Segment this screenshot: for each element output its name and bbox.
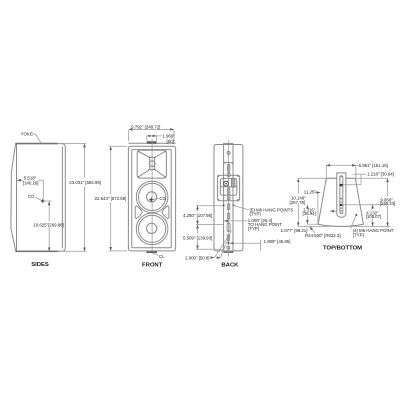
svg-text:SIDES: SIDES <box>31 262 49 268</box>
slot 3 <box>228 204 230 210</box>
dimension 1.077 tick <box>305 232 307 234</box>
cabinet top view outline <box>318 178 363 226</box>
plate screw BR <box>237 199 238 200</box>
svg-text:CG: CG <box>28 194 35 199</box>
dimension 1.969 leader <box>157 135 163 137</box>
dimension 4.250 line <box>197 206 199 211</box>
dimension 9.792 ext right <box>173 130 175 141</box>
strip cross line <box>224 161 233 163</box>
horn diagonal top-left <box>139 152 150 158</box>
svg-text:5.509" [139.93]: 5.509" [139.93] <box>183 236 212 241</box>
hang strip bottom edge <box>224 251 234 253</box>
hang strip left edge <box>223 143 225 252</box>
CG leader <box>35 197 42 200</box>
svg-text:9.792" [248.72]: 9.792" [248.72] <box>131 125 160 130</box>
centerline back <box>228 140 230 256</box>
dimension 22.543 line <box>110 147 112 195</box>
woofer 1 outer <box>136 181 168 213</box>
hole small <box>227 235 230 238</box>
point marker back <box>228 242 230 244</box>
dimension 2.000 arrow 2 <box>218 257 220 259</box>
extension line bottom to 23.031 dim <box>58 250 87 252</box>
svg-text:10.625"[269.88]: 10.625"[269.88] <box>33 223 63 228</box>
hang line to 4.132 <box>343 204 388 206</box>
svg-text:CG: CG <box>159 196 166 201</box>
woofer 1 cone <box>139 183 166 210</box>
dimension 22.543 ext bottom <box>109 250 127 252</box>
right port <box>162 206 169 219</box>
dimension 10.625 line <box>48 202 50 222</box>
svg-text:[257.78]: [257.78] <box>290 200 306 205</box>
slot 6 small <box>227 238 229 241</box>
dimension 1.809 line <box>230 242 261 244</box>
woofer 2 outer <box>136 213 168 245</box>
dimension 4.250 ref mid <box>196 224 224 226</box>
left port <box>135 206 142 219</box>
cabinet side outline <box>11 144 16 252</box>
junction dot right <box>233 204 235 206</box>
yoke top strap line <box>128 142 175 144</box>
svg-text:BACK: BACK <box>221 262 239 268</box>
hang strip top edge <box>224 142 234 144</box>
cabinet front baffle line <box>16 144 18 251</box>
yoke track outer <box>337 173 346 217</box>
speakON connector <box>224 181 229 186</box>
slot 1 <box>228 164 230 171</box>
svg-text:1.969": 1.969" <box>162 133 175 138</box>
svg-text:CL: CL <box>159 254 165 259</box>
hang point leader top view <box>351 216 357 229</box>
svg-text:FRONT: FRONT <box>142 262 163 268</box>
slot 4 <box>228 213 230 219</box>
slot ticks <box>224 163 232 165</box>
cabinet bottom edge <box>16 250 58 252</box>
back edge right <box>346 177 355 179</box>
dimension 4.132 line <box>372 205 374 209</box>
dimension 5.951 leader <box>356 164 358 166</box>
dimension 5.509 line <box>197 225 199 234</box>
svg-text:23.031" [584.99]: 23.031" [584.99] <box>69 180 101 185</box>
woofer 2 cone <box>139 215 166 242</box>
horn outer <box>137 150 166 178</box>
cabinet back edge <box>57 144 65 252</box>
dimension 5.518 line <box>17 179 23 181</box>
yoke strip on back <box>61 147 63 249</box>
horn throat stubs <box>148 157 156 169</box>
svg-text:[140.16]: [140.16] <box>23 180 39 185</box>
horn diagonal top-right <box>155 152 166 158</box>
angle reference vertical <box>317 194 319 225</box>
plate divider <box>220 186 236 188</box>
yoke track slot <box>340 176 343 214</box>
plate screw TR <box>237 175 238 176</box>
back plane line right <box>346 177 388 179</box>
cabinet outer outline <box>128 146 175 251</box>
CL leader <box>153 253 158 255</box>
grille inner outline <box>132 150 171 248</box>
dimension 5.951 line <box>326 164 355 166</box>
CG leader front <box>153 198 159 201</box>
track hang point black <box>340 184 343 186</box>
terminal block <box>232 179 235 187</box>
woofer 1 dust cap <box>147 192 157 202</box>
track mark 3 <box>340 204 342 206</box>
svg-text:22.543" [572.59]: 22.543" [572.59] <box>95 196 127 201</box>
radius leader <box>310 227 315 233</box>
plate screw TL <box>218 175 219 176</box>
track mark 4 <box>341 208 343 209</box>
hole bottom <box>227 246 230 249</box>
CG point marker <box>40 198 45 203</box>
slot 2 <box>228 188 230 195</box>
svg-text:1.218" [30.94]: 1.218" [30.94] <box>367 172 394 177</box>
dimension 9.792 line <box>129 128 174 130</box>
svg-text:1.809" [45.95]: 1.809" [45.95] <box>264 239 291 244</box>
top hang tab <box>147 141 157 144</box>
back panel <box>214 145 243 251</box>
corner ref line <box>307 223 318 225</box>
svg-text:(TYP): (TYP) <box>353 233 365 238</box>
hang strip right edge <box>232 143 234 252</box>
small slot above plate <box>228 172 230 176</box>
speakON center <box>225 183 227 185</box>
svg-text:YOKE: YOKE <box>21 131 33 136</box>
track mark 2 <box>341 198 343 200</box>
svg-text:[245.23]: [245.23] <box>380 201 396 206</box>
dimension 1.218 ext <box>360 174 362 185</box>
svg-text:[105.07]: [105.07] <box>366 214 382 219</box>
woofer 2 dust cap <box>147 223 157 233</box>
hang points leader <box>234 206 249 210</box>
svg-text:R24.500" [R622.3]: R24.500" [R622.3] <box>305 233 341 238</box>
dimension 2.000 slant 2 <box>221 230 232 257</box>
svg-text:2.000" [50.8]: 2.000" [50.8] <box>185 255 209 260</box>
svg-text:TOP/BOTTOM: TOP/BOTTOM <box>323 246 362 252</box>
dimension 22.543 ext top <box>109 145 127 147</box>
yoke leader <box>32 134 41 143</box>
bottom hang tab <box>146 251 157 253</box>
svg-text:4.250" [107.95]: 4.250" [107.95] <box>183 213 212 218</box>
dimension 10.149 line <box>297 179 299 194</box>
dimension 1.969 arrows <box>147 135 156 137</box>
terminal dividers <box>232 181 235 185</box>
angle leader <box>314 191 321 193</box>
horn center circle <box>149 161 155 167</box>
hang point line right <box>343 184 361 186</box>
dimension 2.000 leader <box>211 257 214 259</box>
svg-text:[38.94]: [38.94] <box>303 211 316 216</box>
connector plate inner <box>220 178 236 195</box>
slot 5 long <box>227 223 230 232</box>
dimension 23.031 line <box>84 144 86 178</box>
dimension 5.509 ref bottom <box>196 248 224 250</box>
svg-text:[50]: [50] <box>167 139 174 144</box>
hang point dot top view <box>355 214 357 216</box>
dimension 4.250 ref top <box>196 205 223 207</box>
dimension 5.951 ext right <box>355 165 357 182</box>
dimension 1.316 arrows <box>306 205 308 208</box>
track mark 1 <box>341 176 343 178</box>
junction dot left <box>223 204 225 206</box>
svg-text:11.25°: 11.25° <box>304 189 317 194</box>
cabinet top edge <box>15 143 57 145</box>
hang line left stub with arrow <box>330 210 336 212</box>
horn corner ticks <box>138 151 166 178</box>
back edge left <box>326 177 337 179</box>
connector plate outer <box>218 175 240 201</box>
front plane line <box>298 225 390 227</box>
dimension 9.792 ext left <box>127 130 129 141</box>
track mark 5 <box>341 213 343 214</box>
dimension 2.000 slant 1 <box>215 237 228 258</box>
dimension 1.969 ext lines <box>146 135 148 140</box>
hang point dim line <box>224 220 247 222</box>
svg-text:1.077" [98.21]: 1.077" [98.21] <box>281 228 308 233</box>
horn diagonal bottom-left <box>139 170 150 177</box>
CG point marker front <box>149 197 154 202</box>
dimension 5.951 ext left <box>325 165 327 182</box>
dimension 1.218 line <box>353 173 367 175</box>
hang hole top <box>227 151 230 154</box>
back plane line left <box>298 177 337 179</box>
extension line top to 23.031 dim <box>58 143 87 145</box>
svg-text:5.951" [151.15]: 5.951" [151.15] <box>359 163 388 168</box>
horn diagonal bottom-right <box>155 170 166 177</box>
dimension 9.656 line <box>387 179 389 197</box>
plate screw BL <box>218 199 219 200</box>
svg-text:(TYP): (TYP) <box>248 226 260 231</box>
CG tick line <box>43 200 51 202</box>
svg-text:(TYP): (TYP) <box>250 212 262 217</box>
hang hole mid <box>227 197 230 200</box>
centerline <box>151 139 153 254</box>
horn throat rect <box>150 157 155 169</box>
